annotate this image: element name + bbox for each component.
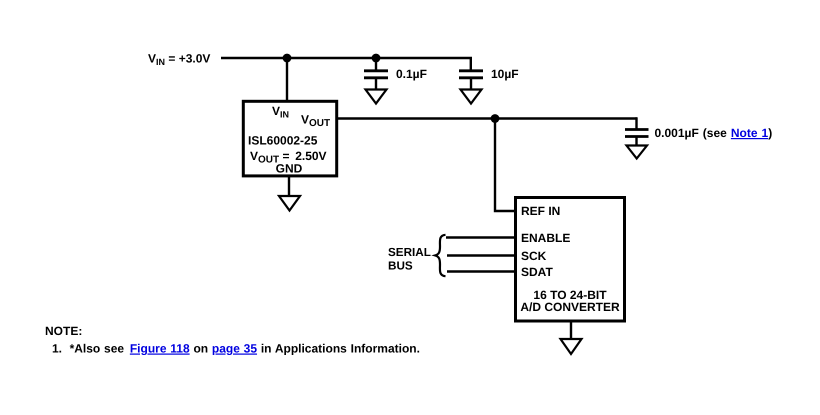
wire U1 GND to ground xyxy=(288,176,290,196)
label 16 TO 24-BIT xyxy=(533,288,607,302)
A/D converter U2 box xyxy=(516,198,625,322)
junction VIN/C1 xyxy=(372,54,381,63)
pin label GND xyxy=(276,162,303,176)
ground (C1) xyxy=(366,90,387,104)
pin label VIN xyxy=(272,104,289,120)
svg-text:ISL60002-25: ISL60002-25 xyxy=(248,134,318,148)
wire VIN down to regulator xyxy=(286,58,288,102)
serial bus brace xyxy=(435,235,445,276)
net VIN label xyxy=(148,52,210,68)
label A/D CONVERTER xyxy=(520,300,620,314)
wire ENABLE xyxy=(446,236,515,238)
svg-text:SDAT: SDAT xyxy=(521,265,553,279)
ground (U2) xyxy=(561,339,582,354)
capacitor C3 0.001uF xyxy=(625,117,649,145)
junction VIN/regulator xyxy=(283,54,292,63)
label SERIAL BUS xyxy=(388,246,431,273)
label C1 value 0.1uF xyxy=(396,67,427,81)
wire SCK xyxy=(447,254,515,256)
label C3 value 0.001uF (see Note 1) xyxy=(655,126,773,140)
svg-text:BUS: BUS xyxy=(388,260,413,273)
ground (C2) xyxy=(461,90,482,104)
ground (U1) xyxy=(279,196,300,211)
svg-text:A/D CONVERTER: A/D CONVERTER xyxy=(520,300,620,314)
wire U2 GND to ground xyxy=(570,321,572,339)
pin label SDAT xyxy=(521,265,553,279)
wire SDAT xyxy=(447,270,515,272)
label VOUT = 2.50V xyxy=(250,149,327,166)
label C2 value 10uF xyxy=(491,67,519,81)
svg-text:0.001µF (see Note 1): 0.001µF (see Note 1) xyxy=(655,126,773,140)
pin label REF IN xyxy=(521,204,560,218)
note heading NOTE: xyxy=(45,324,82,338)
label ISL60002-25 xyxy=(248,134,318,148)
pin label SCK xyxy=(521,249,547,263)
svg-text:0.1µF: 0.1µF xyxy=(396,67,427,81)
svg-text:GND: GND xyxy=(276,162,303,176)
svg-text:NOTE:: NOTE: xyxy=(45,324,82,338)
svg-text:SCK: SCK xyxy=(521,249,547,263)
wire down to C2 xyxy=(470,57,472,70)
ground (C3) xyxy=(627,146,648,159)
wire VIN rail xyxy=(221,57,472,59)
svg-text:REF IN: REF IN xyxy=(521,204,560,218)
wire VOUT rail xyxy=(337,117,637,119)
regulator U1 ISL60002-25 box xyxy=(243,101,336,176)
pin label VOUT xyxy=(301,113,330,130)
wire VOUT to REF IN xyxy=(495,119,515,212)
svg-text:SERIAL: SERIAL xyxy=(388,246,431,259)
junction VOUT/REF IN xyxy=(491,114,500,123)
svg-text:10µF: 10µF xyxy=(491,67,519,81)
capacitor C1 0.1uF xyxy=(364,58,388,89)
note 1 text xyxy=(52,342,420,356)
capacitor C2 10uF xyxy=(459,71,483,89)
svg-text:ENABLE: ENABLE xyxy=(521,231,570,245)
svg-text:1. *Also see Figure 118 on pa: 1. *Also see Figure 118 on page 35 in Ap… xyxy=(52,342,420,356)
pin label ENABLE xyxy=(521,231,570,245)
